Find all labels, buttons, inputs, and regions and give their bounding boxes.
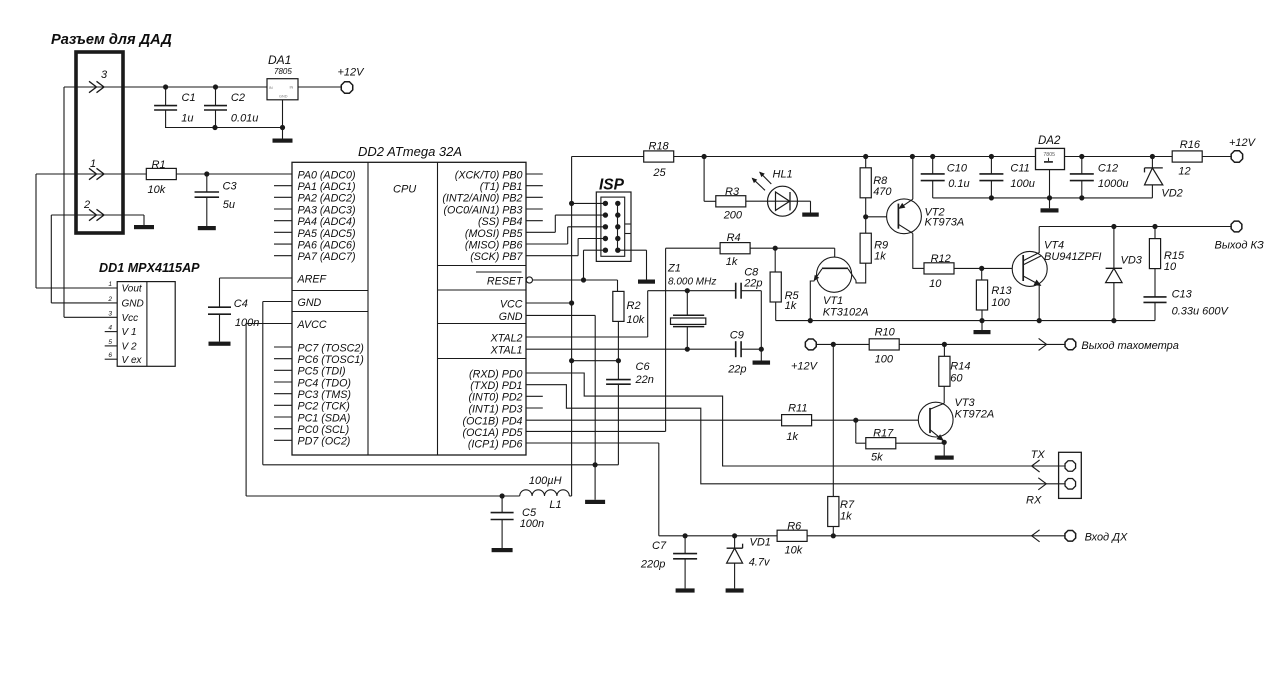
svg-text:R14: R14 <box>950 361 970 373</box>
svg-text:PC3 (TMS): PC3 (TMS) <box>298 389 351 401</box>
terminal tachometer output <box>1065 339 1076 350</box>
svg-text:PA7 (ADC7): PA7 (ADC7) <box>298 251 356 263</box>
wire R10 to tachometer output <box>899 343 1065 345</box>
svg-text:0.33u 600V: 0.33u 600V <box>1172 306 1230 318</box>
svg-text:R4: R4 <box>727 232 741 244</box>
ground at C3 <box>198 226 216 230</box>
ground at GND net <box>585 500 605 504</box>
ISP pin dots right column <box>615 201 620 206</box>
ground at HL1 <box>802 213 819 217</box>
stub PD3 <box>526 407 543 409</box>
svg-text:22n: 22n <box>635 374 654 386</box>
svg-text:VT4: VT4 <box>1044 240 1064 252</box>
svg-text:(OC1A) PD5: (OC1A) PD5 <box>463 427 523 439</box>
wire R5 to emitter rail <box>775 302 777 321</box>
svg-text:PC7 (TOSC2): PC7 (TOSC2) <box>298 342 364 354</box>
svg-text:5u: 5u <box>223 199 235 211</box>
svg-text:KT972A: KT972A <box>955 409 995 421</box>
svg-text:PA2 (ADC2): PA2 (ADC2) <box>298 193 356 205</box>
svg-text:R13: R13 <box>991 285 1012 297</box>
svg-text:C3: C3 <box>223 181 238 193</box>
ground at DA1 <box>273 139 293 143</box>
connector TX circle <box>1065 461 1076 472</box>
svg-text:DA2: DA2 <box>1038 135 1061 147</box>
svg-text:C2: C2 <box>231 92 245 104</box>
IC DD1 box <box>117 282 175 367</box>
svg-text:KT973A: KT973A <box>925 217 965 229</box>
svg-text:PA1 (ADC1): PA1 (ADC1) <box>298 181 356 193</box>
wire pin2 to ground and down to DD1 GND <box>51 214 144 216</box>
wire DA2 ground <box>1049 170 1051 209</box>
resistor R11 <box>782 415 812 426</box>
wire L1 to VCC vertical <box>569 495 571 497</box>
svg-text:1k: 1k <box>840 511 852 523</box>
terminal +12V top right <box>1231 151 1242 162</box>
ISP header inner box <box>601 197 625 256</box>
capacitor C7 <box>684 536 686 554</box>
resistor R14 <box>943 344 945 356</box>
wire rail to R3 <box>703 157 705 202</box>
svg-text:TX: TX <box>1031 449 1046 461</box>
wire VCC to R2 C6 node <box>572 360 619 362</box>
wire ISP MISO <box>526 243 568 245</box>
LED HL1 <box>768 186 798 216</box>
svg-text:(SCK) PB7: (SCK) PB7 <box>470 251 523 263</box>
wire output KZ line <box>1039 226 1231 228</box>
capacitor C8 <box>735 283 737 299</box>
svg-text:V ex: V ex <box>122 355 143 366</box>
chevron input DX <box>1032 530 1040 542</box>
resistor R9 <box>860 233 871 263</box>
svg-text:PC1 (SDA): PC1 (SDA) <box>298 412 351 424</box>
ISP header outer box <box>596 192 631 261</box>
svg-text:IN: IN <box>290 86 294 90</box>
svg-text:C1: C1 <box>182 92 196 104</box>
resistor R10 <box>869 339 899 350</box>
svg-text:VCC: VCC <box>500 298 523 310</box>
svg-text:IN: IN <box>269 86 273 90</box>
inductor L1 <box>520 490 570 496</box>
svg-text:1u: 1u <box>181 113 193 125</box>
svg-text:4.7v: 4.7v <box>749 557 771 569</box>
capacitor C2 <box>213 84 218 89</box>
svg-text:V 1: V 1 <box>122 327 137 338</box>
diode VD3 <box>1113 227 1115 269</box>
wire HL1 to ground <box>746 200 811 202</box>
svg-text:(SS) PB4: (SS) PB4 <box>478 216 523 228</box>
svg-text:R2: R2 <box>627 300 641 312</box>
resistor R4 <box>720 243 750 254</box>
svg-text:PC5 (TDI): PC5 (TDI) <box>298 366 346 378</box>
transistor VT2 KT973A <box>887 199 922 234</box>
svg-text:1k: 1k <box>874 251 886 263</box>
wire R1 to PA0 <box>176 173 292 175</box>
wire PD5 to R4 <box>526 430 666 432</box>
wire ISP pin1 to VCC <box>572 202 605 204</box>
resistor R13 <box>981 268 983 280</box>
svg-text:1: 1 <box>90 158 96 170</box>
ISP pin dots left column <box>603 201 608 206</box>
wire PD0 RXD to TX pin <box>526 373 1065 466</box>
chevron TX <box>1032 460 1040 472</box>
capacitor C12 <box>1081 157 1083 174</box>
svg-text:6: 6 <box>108 352 112 359</box>
svg-text:KT3102A: KT3102A <box>823 307 869 319</box>
svg-text:22p: 22p <box>727 364 746 376</box>
wire PD6 to input DX line <box>526 442 659 444</box>
wire R17 to VT3 emitter <box>895 442 944 444</box>
wire DA1 to +12V terminal <box>298 86 341 88</box>
pin 2 chevron <box>89 209 97 220</box>
wire DA2 bottom rail <box>933 197 1153 199</box>
resistor R15 <box>1154 227 1156 239</box>
wire PD1 TXD to RX pin <box>526 385 1065 484</box>
resistor R7 <box>828 497 839 527</box>
svg-text:12: 12 <box>1178 166 1190 178</box>
connector X1 box <box>76 52 123 233</box>
svg-text:100n: 100n <box>520 518 544 530</box>
svg-text:0.01u: 0.01u <box>231 113 259 125</box>
svg-text:PA0 (ADC0): PA0 (ADC0) <box>298 169 356 181</box>
transistor VT3 KT972A <box>918 402 953 437</box>
svg-text:C4: C4 <box>234 298 248 310</box>
wire VCC pin <box>526 302 572 304</box>
svg-text:(TXD) PD1: (TXD) PD1 <box>470 380 522 392</box>
crystal Z1 <box>686 291 688 316</box>
stub PD2 <box>526 395 543 397</box>
svg-text:(OC0/AIN1) PB3: (OC0/AIN1) PB3 <box>444 204 523 216</box>
svg-text:100µH: 100µH <box>529 475 562 487</box>
svg-text:R12: R12 <box>931 253 951 265</box>
svg-text:GND: GND <box>298 297 322 309</box>
wire GND left to bottom rail <box>263 301 292 303</box>
svg-text:PD7 (OC2): PD7 (OC2) <box>298 436 351 448</box>
svg-text:R18: R18 <box>649 141 670 153</box>
svg-text:(RXD) PD0: (RXD) PD0 <box>469 368 522 380</box>
wire R7 to +12V line <box>832 344 834 496</box>
svg-text:DD2 ATmega 32A: DD2 ATmega 32A <box>358 144 462 159</box>
svg-text:GND: GND <box>279 94 288 98</box>
svg-text:VD2: VD2 <box>1161 188 1182 200</box>
wire pin1 to R1 and down to DD1 Vout <box>36 173 146 175</box>
pin 3 chevron <box>89 81 97 92</box>
svg-text:10k: 10k <box>148 184 166 196</box>
capacitor C10 <box>932 157 934 174</box>
wire R4 to VT1 base <box>750 247 835 249</box>
svg-text:1k: 1k <box>786 431 798 443</box>
svg-text:10: 10 <box>1164 261 1177 273</box>
svg-text:V 2: V 2 <box>122 342 137 353</box>
resistor R1 <box>146 168 176 179</box>
wire AVCC to C5 L1 <box>246 323 292 325</box>
capacitor C9 <box>735 341 737 357</box>
wire R2 to VCC node <box>617 321 619 360</box>
svg-text:RESET: RESET <box>487 275 524 287</box>
svg-text:PC6 (TOSC1): PC6 (TOSC1) <box>298 354 364 366</box>
svg-text:R3: R3 <box>725 186 740 198</box>
svg-text:Выход КЗ: Выход КЗ <box>1215 240 1265 252</box>
svg-text:AVCC: AVCC <box>297 319 327 331</box>
svg-text:(INT2/AIN0) PB2: (INT2/AIN0) PB2 <box>442 193 522 205</box>
transistor VT1 KT3102A <box>817 257 852 292</box>
IC DD2 ATmega32A box <box>292 162 526 455</box>
capacitor C1 <box>163 84 168 89</box>
wire ISP SCK <box>526 255 578 257</box>
svg-text:5: 5 <box>108 339 112 346</box>
connector RX circle <box>1065 479 1076 490</box>
ground at C4 <box>209 342 231 346</box>
svg-text:Z1: Z1 <box>667 263 681 275</box>
ground at pin2 <box>134 225 154 229</box>
regulator DA2 7805 <box>1036 148 1065 169</box>
svg-text:VD3: VD3 <box>1121 255 1143 267</box>
svg-text:2: 2 <box>107 296 112 303</box>
transistor VT4 BU941ZPFI <box>1012 251 1047 286</box>
terminal output KZ <box>1231 221 1242 232</box>
svg-text:+12V: +12V <box>338 67 366 79</box>
capacitor C3 <box>206 174 208 192</box>
svg-text:R10: R10 <box>875 327 896 339</box>
svg-text:(MISO) PB6: (MISO) PB6 <box>465 239 523 251</box>
svg-text:XTAL2: XTAL2 <box>490 332 523 344</box>
svg-text:4: 4 <box>108 325 112 332</box>
svg-text:7805: 7805 <box>1043 152 1055 158</box>
terminal input DX <box>1065 530 1076 541</box>
svg-text:8.000 MHz: 8.000 MHz <box>668 277 716 288</box>
svg-text:BU941ZPFI: BU941ZPFI <box>1044 251 1101 263</box>
wire AREF to C4 <box>220 277 293 279</box>
svg-text:470: 470 <box>873 186 892 198</box>
wire R8 R9 junction to VT2 base <box>865 198 867 233</box>
svg-text:C7: C7 <box>652 540 667 552</box>
svg-text:(XCK/T0) PB0: (XCK/T0) PB0 <box>455 169 523 181</box>
terminal +12V mid <box>805 339 816 350</box>
capacitor C13 <box>1154 269 1156 297</box>
svg-text:VD1: VD1 <box>750 537 771 549</box>
chevron RX <box>1038 478 1046 490</box>
wire GND right pin down <box>526 314 595 316</box>
capacitor C6 <box>617 361 619 380</box>
resistor R12 <box>924 263 954 274</box>
svg-text:DA1: DA1 <box>268 53 291 67</box>
wire R16 to +12V terminal <box>1202 156 1231 158</box>
ground at C7 <box>676 588 695 592</box>
svg-text:2: 2 <box>83 199 90 211</box>
svg-text:R6: R6 <box>787 521 802 533</box>
resistor R17 <box>866 438 896 449</box>
RESET inversion circle <box>526 277 532 283</box>
capacitor C11 <box>990 157 992 174</box>
terminal +12V top left <box>341 82 352 93</box>
svg-text:GND: GND <box>122 299 144 310</box>
svg-text:22p: 22p <box>743 278 762 290</box>
left column separators <box>292 290 368 292</box>
wire pin3 to DA1 and down to DD1 Vcc <box>64 86 267 88</box>
svg-text:(MOSI) PB5: (MOSI) PB5 <box>465 228 523 240</box>
svg-text:(INT0) PD2: (INT0) PD2 <box>468 392 522 404</box>
svg-text:1k: 1k <box>785 300 797 312</box>
wire XTAL1 line <box>526 348 735 350</box>
svg-text:C11: C11 <box>1010 163 1029 175</box>
svg-text:(ICP1) PD6: (ICP1) PD6 <box>468 438 523 450</box>
ISP right stubs <box>625 223 631 225</box>
svg-text:VT1: VT1 <box>823 295 843 307</box>
svg-text:HL1: HL1 <box>773 169 793 181</box>
wire PD4 to R11 <box>526 419 782 421</box>
svg-text:10k: 10k <box>627 314 645 326</box>
wire XTAL2 to crystal <box>526 336 648 338</box>
wire R18 left to VCC vertical <box>572 156 644 158</box>
svg-text:(T1) PB1: (T1) PB1 <box>480 181 523 193</box>
resistor R18 <box>644 151 674 162</box>
svg-text:220p: 220p <box>640 559 665 571</box>
svg-text:Вход ДХ: Вход ДХ <box>1085 532 1128 544</box>
ground at VD1 <box>726 588 744 592</box>
connector TX RX box <box>1059 452 1082 498</box>
right column separators <box>438 265 527 267</box>
svg-text:100: 100 <box>875 354 894 366</box>
svg-text:C10: C10 <box>947 163 968 175</box>
svg-text:1: 1 <box>108 281 112 288</box>
zener diode VD2 <box>1151 157 1153 168</box>
svg-text:(INT1) PD3: (INT1) PD3 <box>468 403 522 415</box>
wire +5V top rail <box>674 156 1172 158</box>
svg-text:3: 3 <box>101 69 108 81</box>
svg-text:R11: R11 <box>788 403 807 415</box>
svg-text:R7: R7 <box>840 499 855 511</box>
svg-text:200: 200 <box>723 210 743 222</box>
resistor R16 <box>1172 151 1202 162</box>
pin 1 chevron <box>89 168 97 179</box>
svg-text:100u: 100u <box>1010 178 1034 190</box>
svg-text:Разъем для ДАД: Разъем для ДАД <box>51 32 172 48</box>
wire ISP RESET pin <box>584 249 606 251</box>
wire +12V to R10 <box>817 343 870 345</box>
resistor R5 <box>774 248 776 272</box>
svg-text:(OC1B) PD4: (OC1B) PD4 <box>463 416 523 428</box>
svg-text:C12: C12 <box>1098 163 1118 175</box>
wire VCC net R18 to L1 <box>571 157 573 497</box>
svg-text:PC0 (SCL): PC0 (SCL) <box>298 424 350 436</box>
svg-text:C6: C6 <box>636 361 651 373</box>
svg-text:R1: R1 <box>152 159 166 171</box>
ground at VT3 <box>935 456 954 460</box>
capacitor C4 <box>208 306 231 308</box>
svg-text:PA5 (ADC5): PA5 (ADC5) <box>298 228 356 240</box>
resistor R2 <box>613 291 624 321</box>
regulator DA1 7805 <box>267 79 298 100</box>
wire R13 to rail and ground <box>981 310 983 330</box>
svg-text:PA4 (ADC4): PA4 (ADC4) <box>298 216 356 228</box>
chevron tachometer <box>1039 338 1047 350</box>
svg-text:DD1 MPX4115AP: DD1 MPX4115AP <box>99 261 200 275</box>
svg-text:VT3: VT3 <box>955 397 976 409</box>
svg-text:PA3 (ADC3): PA3 (ADC3) <box>298 204 356 216</box>
ground at crystal caps <box>753 361 771 365</box>
svg-text:7805: 7805 <box>274 67 292 76</box>
svg-text:XTAL1: XTAL1 <box>490 345 523 357</box>
svg-text:L1: L1 <box>549 499 561 511</box>
ISP right column bus <box>617 203 619 250</box>
svg-text:25: 25 <box>652 167 666 179</box>
zener diode VD1 <box>734 536 736 548</box>
svg-text:C9: C9 <box>730 330 744 342</box>
resistor R8 <box>865 157 867 168</box>
svg-text:3: 3 <box>108 310 112 317</box>
svg-text:ISP: ISP <box>599 177 625 194</box>
svg-text:GND: GND <box>499 311 523 323</box>
wire ISP ground pin <box>618 249 647 251</box>
wire ISP MOSI <box>526 231 555 233</box>
wire R12 to VT4 base <box>954 267 1022 269</box>
wire C1 C2 DA1 ground rail <box>165 127 283 129</box>
svg-text:0.1u: 0.1u <box>948 178 969 190</box>
svg-text:+12V: +12V <box>1229 137 1257 149</box>
wire C8 C9 junction to ground <box>760 291 762 361</box>
svg-text:C13: C13 <box>1172 289 1193 301</box>
svg-text:10k: 10k <box>785 545 803 557</box>
svg-text:R17: R17 <box>873 428 894 440</box>
svg-text:1000u: 1000u <box>1098 178 1129 190</box>
ground at R13 <box>974 330 991 334</box>
svg-text:R16: R16 <box>1180 139 1201 151</box>
svg-text:PC2 (TCK): PC2 (TCK) <box>298 401 350 413</box>
svg-text:60: 60 <box>950 373 963 385</box>
svg-text:1k: 1k <box>726 256 738 268</box>
wire RESET to R2 <box>533 279 618 281</box>
wire to ground symbol <box>594 465 596 500</box>
svg-text:100: 100 <box>991 297 1010 309</box>
ground at DA2 <box>1041 208 1059 212</box>
resistor R6 <box>777 530 807 541</box>
svg-text:Vcc: Vcc <box>122 313 139 324</box>
svg-text:5k: 5k <box>871 452 883 464</box>
ground at ISP <box>638 280 655 284</box>
svg-text:AREF: AREF <box>297 273 328 285</box>
svg-text:PA6 (ADC6): PA6 (ADC6) <box>298 239 356 251</box>
capacitor C5 <box>501 496 503 513</box>
wire branch to R17 <box>855 420 857 443</box>
svg-text:Выход тахометра: Выход тахометра <box>1081 340 1179 352</box>
wire VT2 collector to R12 <box>912 267 924 269</box>
resistor R3 <box>716 196 746 207</box>
svg-text:+12V: +12V <box>791 361 819 373</box>
svg-text:RX: RX <box>1026 495 1042 507</box>
svg-text:CPU: CPU <box>393 184 416 196</box>
ground at C5 <box>492 548 513 552</box>
svg-text:PC4 (TDO): PC4 (TDO) <box>298 377 351 389</box>
LED arrows <box>752 178 765 190</box>
svg-text:Vout: Vout <box>122 284 143 295</box>
wire R11 to VT3 base <box>812 419 930 421</box>
svg-text:10: 10 <box>929 278 942 290</box>
wire R14 to VT3 collector <box>943 386 945 403</box>
